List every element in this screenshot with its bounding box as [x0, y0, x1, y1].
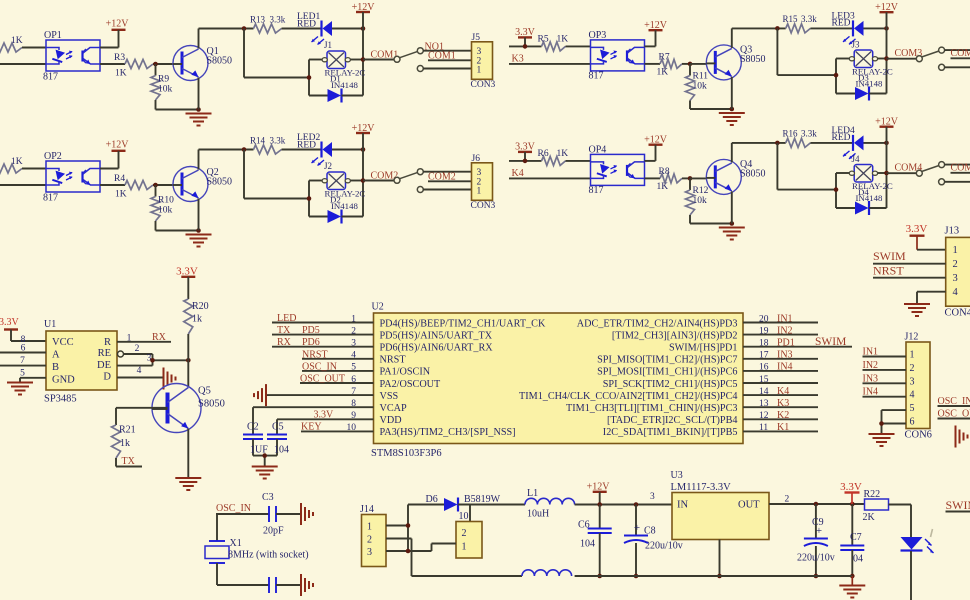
net label COM2 left ch2 — [363, 171, 398, 182]
svg-text:SWIM: SWIM — [815, 336, 846, 348]
svg-text:R3: R3 — [114, 53, 125, 63]
ground at Q1 — [186, 114, 212, 126]
wire C4 to ground bars — [276, 584, 300, 586]
svg-text:PD5: PD5 — [302, 325, 320, 336]
net label K1 / U2 pin 11 — [777, 422, 789, 433]
svg-text:220u/10v: 220u/10v — [797, 553, 835, 564]
power 3.3V at U3 output — [840, 481, 862, 504]
svg-text:CON3: CON3 — [471, 80, 496, 90]
svg-text:C5: C5 — [272, 422, 284, 433]
pin 6 text U2 — [351, 375, 441, 390]
svg-text:NRST: NRST — [302, 349, 328, 360]
wire U2 pin 11 — [743, 430, 818, 432]
svg-text:1K: 1K — [657, 68, 669, 78]
svg-text:TIM1_CH4/CLK_CCO/AIN2[TIM1_CH2: TIM1_CH4/CLK_CCO/AIN2[TIM1_CH2]/(HS)PC4 — [519, 391, 737, 402]
wire base Q4 — [690, 177, 706, 179]
pin 1 label J13 — [953, 245, 958, 256]
node relay loop ch2 — [307, 196, 312, 201]
svg-text:LED: LED — [277, 313, 296, 324]
svg-text:2K: 2K — [863, 512, 876, 523]
switch contacts relay output ch2 — [394, 169, 423, 193]
ground (bars) at C3 — [301, 503, 313, 525]
wire U2 pin 16 — [743, 370, 818, 372]
resistor 1K input ch1 — [0, 36, 46, 52]
net label SWIM / U2 pin18 — [815, 336, 846, 348]
power +12V at relay J1 — [352, 2, 376, 96]
svg-text:R20: R20 — [192, 301, 209, 312]
wire R14-LED2 — [282, 149, 322, 151]
net label COM4 left ch4 — [887, 162, 923, 173]
resistor R8 1K — [645, 167, 691, 192]
svg-text:TX: TX — [122, 456, 136, 467]
svg-text:3: 3 — [910, 376, 915, 387]
node 3.3V tap K3 — [523, 44, 528, 49]
wire crystal to C4 — [217, 563, 269, 585]
wire C2-C5 ground join — [253, 456, 277, 466]
wire collector Q1 — [198, 29, 200, 49]
svg-text:R10: R10 — [158, 196, 174, 206]
net label IN1 at J12 pin1 — [863, 347, 907, 358]
transistor Q5 S8050 — [152, 384, 225, 433]
power +12V at OP3 — [644, 20, 668, 46]
net label RX / U1 pin1 — [117, 332, 171, 344]
svg-text:IN4: IN4 — [777, 362, 793, 373]
pin 1 label J12 — [910, 350, 915, 361]
wire L1 to U3 IN — [575, 504, 672, 506]
svg-text:20pF: 20pF — [263, 526, 284, 537]
resistor R7 1K — [645, 53, 691, 78]
net label IN3 at J12 pin3 — [863, 373, 907, 384]
node J14 pin3 junction — [406, 549, 411, 554]
pin 3 label J13 — [953, 273, 958, 284]
svg-text:B: B — [52, 362, 59, 373]
svg-text:B5819W: B5819W — [464, 494, 501, 505]
svg-text:R12: R12 — [693, 186, 709, 196]
node base junction ch4 — [688, 176, 693, 181]
svg-text:SWIM/[HS]PD1: SWIM/[HS]PD1 — [669, 343, 738, 354]
ground at Q5 — [175, 478, 201, 490]
svg-text:3: 3 — [650, 492, 655, 502]
svg-text:RX: RX — [152, 332, 167, 343]
svg-text:1: 1 — [953, 245, 958, 256]
svg-text:2: 2 — [135, 344, 140, 354]
svg-text:J2: J2 — [324, 161, 332, 171]
wire NC contact ch4 — [944, 181, 970, 183]
net label NRST / U2 pin4 — [302, 349, 374, 360]
svg-text:PD6(HS)/AIN6/UART_RX: PD6(HS)/AIN6/UART_RX — [380, 343, 494, 354]
pin 20 text U2 — [577, 314, 769, 329]
wire input K1 — [0, 63, 46, 65]
optocoupler OP2 — [43, 151, 100, 204]
node base junction ch3 — [688, 62, 693, 67]
svg-text:1: 1 — [477, 187, 482, 197]
svg-text:1K: 1K — [115, 190, 127, 200]
svg-text:3: 3 — [367, 547, 372, 558]
U1 pin3 DE — [117, 354, 153, 366]
node rail-relay tap ch1 — [242, 26, 247, 31]
wire NC contact ch1 — [423, 68, 472, 70]
svg-text:OSC_IN: OSC_IN — [216, 503, 251, 514]
svg-text:IN1: IN1 — [777, 313, 793, 324]
svg-text:K4: K4 — [777, 386, 789, 397]
power 3.3V at R20 — [176, 266, 198, 300]
diode D1 IN4148 — [309, 89, 363, 103]
net label COM4 right ch4 — [951, 163, 970, 174]
node C8 top — [634, 502, 639, 507]
svg-text:C2: C2 — [247, 422, 259, 433]
pin 6 label U1 — [21, 344, 26, 354]
svg-text:L1: L1 — [527, 488, 538, 499]
svg-text:VCAP: VCAP — [380, 403, 408, 414]
optocoupler OP3 — [589, 30, 645, 82]
svg-text:4: 4 — [910, 390, 915, 401]
pin 11 text U2 — [603, 423, 769, 438]
resistor R22 2K — [863, 489, 912, 537]
node relay pin ch4 — [884, 171, 889, 176]
capacitor C8 220u/10v — [624, 505, 683, 577]
power 3.3V at J13 — [906, 223, 946, 250]
power +12V at relay J4 — [875, 117, 899, 209]
svg-text:J1: J1 — [324, 40, 332, 50]
svg-text:RE: RE — [98, 348, 111, 359]
net label IN2 / U2 pin 19 — [777, 325, 793, 336]
svg-text:3.3V: 3.3V — [314, 409, 335, 420]
net label SWIM bottom right — [946, 498, 970, 512]
wire bottom power rail — [412, 575, 853, 577]
wire rail Q1-R13 — [199, 28, 254, 30]
svg-text:NRST: NRST — [873, 264, 904, 278]
wire collector Q3 — [731, 28, 733, 48]
svg-text:IN4148: IN4148 — [331, 201, 358, 211]
svg-text:OP3: OP3 — [589, 30, 607, 41]
net label K3 — [509, 54, 591, 65]
node C9 top — [814, 502, 819, 507]
optocoupler OP1 — [43, 30, 100, 83]
pin 3 label J12 — [910, 376, 915, 387]
wire J10 pin1 to J14 pin3 — [432, 544, 457, 552]
svg-text:5: 5 — [910, 403, 915, 414]
svg-text:C6: C6 — [578, 520, 590, 531]
svg-text:R7: R7 — [659, 53, 670, 63]
node 3.3V tap K4 — [523, 159, 528, 164]
svg-text:SWIM: SWIM — [873, 249, 906, 263]
svg-text:J12: J12 — [905, 332, 919, 343]
power +12V at relay J2 — [352, 123, 376, 217]
connector J6 CON3 — [471, 154, 496, 211]
svg-text:3: 3 — [147, 354, 152, 364]
resistor R14 3.3k — [250, 136, 286, 155]
pin 10 text U2 — [347, 423, 516, 438]
svg-text:1k: 1k — [192, 314, 202, 325]
svg-text:+12V: +12V — [106, 140, 130, 151]
pin 5 label J12 — [910, 403, 915, 414]
svg-text:X1: X1 — [230, 538, 242, 549]
optocoupler OP4 — [589, 145, 645, 197]
capacitor C5 104 — [267, 419, 289, 455]
pin 4 label J13 — [953, 287, 959, 298]
svg-text:2: 2 — [367, 535, 372, 546]
svg-text:10k: 10k — [158, 206, 173, 216]
pin 16 text U2 — [597, 363, 769, 378]
wire rail Q3-R15 — [732, 27, 786, 29]
node rail-relay tap ch4 — [775, 141, 780, 146]
svg-text:3.3k: 3.3k — [270, 15, 286, 25]
svg-text:2: 2 — [462, 528, 467, 539]
pin 6 label J12 — [910, 417, 915, 428]
svg-text:PD1: PD1 — [777, 338, 795, 349]
wire emitter Q2 — [198, 199, 200, 231]
ground at Q3 — [719, 113, 745, 125]
relay J3 RELAY-2C — [849, 40, 893, 89]
relay J2 RELAY-2C — [322, 161, 365, 211]
pin 3 text U2 — [351, 339, 493, 354]
ground at C2/C5 — [252, 467, 278, 479]
wire U2 pin 19 — [743, 334, 818, 336]
svg-text:J3: J3 — [852, 40, 861, 50]
node relay loop ch1 — [307, 75, 312, 80]
svg-text:1K: 1K — [557, 149, 569, 159]
wire U2 pin 14 — [743, 394, 818, 396]
svg-text:817: 817 — [589, 71, 604, 82]
svg-text:LM1117-3.3V: LM1117-3.3V — [671, 482, 732, 493]
pin 2 label J13 — [953, 259, 958, 270]
svg-text:K2: K2 — [777, 410, 789, 421]
svg-text:A: A — [52, 350, 60, 361]
svg-text:R8: R8 — [659, 167, 670, 177]
node rail-+12V ch1 — [361, 26, 366, 31]
svg-text:C8: C8 — [644, 526, 656, 537]
wire emitter Q1 — [198, 78, 200, 110]
wire R13-LED1 — [282, 28, 322, 30]
net label K2 / U2 pin 12 — [777, 410, 789, 421]
net label COM3 right ch3 — [951, 48, 970, 59]
ground (bars) at U1 pin D — [164, 368, 176, 390]
wire R20 node to Q5 collector — [187, 360, 189, 387]
wire rail Q2-R14 — [199, 149, 254, 151]
svg-text:817: 817 — [589, 185, 604, 196]
node J14 pin1 junction — [406, 523, 411, 528]
net label IN4 / U2 pin 16 — [777, 362, 793, 373]
svg-text:OUT: OUT — [738, 500, 760, 511]
ground (bars) at U2 VSS — [254, 384, 266, 406]
svg-text:1: 1 — [910, 350, 915, 361]
wire U1 pin6 A — [0, 352, 46, 354]
wire collector Q2 — [198, 150, 200, 170]
pin 19 text U2 — [612, 326, 769, 341]
pin 5 text U2 — [351, 363, 430, 378]
capacitor C2 1UF — [243, 407, 268, 455]
svg-text:R21: R21 — [119, 425, 136, 436]
wire J14 pin1 — [386, 525, 408, 527]
diode D3 IN4148 — [836, 87, 887, 101]
net label LED / U2 pin1 — [272, 313, 374, 324]
pin 3 label U3 — [650, 492, 655, 502]
resistor R16 3.3k — [783, 129, 818, 148]
net label OSC_IN at crystal — [216, 503, 269, 514]
svg-text:R9: R9 — [158, 75, 169, 85]
svg-text:R6: R6 — [538, 149, 549, 159]
svg-text:220u/10v: 220u/10v — [645, 541, 683, 552]
node C6 bottom — [597, 574, 602, 579]
svg-text:04: 04 — [853, 554, 863, 565]
wire D6 anode riser — [408, 505, 444, 552]
resistor 1K input ch2 — [0, 157, 46, 173]
svg-text:J13: J13 — [945, 226, 960, 237]
svg-text:3.3V: 3.3V — [906, 223, 928, 235]
wire NC contact ch3 — [944, 66, 970, 68]
svg-text:PA1/OSCIN: PA1/OSCIN — [380, 367, 431, 378]
net label TX at R21 — [116, 456, 142, 467]
svg-text:1K: 1K — [115, 69, 127, 79]
inductor L1 10uH — [525, 488, 575, 520]
svg-text:U2: U2 — [372, 302, 384, 313]
capacitor C9 220u/10v — [797, 504, 835, 576]
net label OSC_IN right — [938, 396, 970, 407]
svg-text:3.3V: 3.3V — [0, 317, 20, 328]
net label OSC_IN / U2 pin5 — [302, 361, 374, 372]
svg-text:+: + — [634, 522, 640, 534]
wire NO contact ch3 — [944, 49, 970, 51]
svg-text:OP2: OP2 — [44, 151, 62, 162]
net label COM1 right ch1 — [428, 51, 472, 62]
svg-text:OP1: OP1 — [44, 30, 62, 41]
node R20 bottom — [186, 358, 191, 363]
wire NO contact ch4 — [944, 164, 970, 166]
node relay loop ch4 — [834, 187, 839, 192]
power +12V at OP1 — [100, 19, 129, 48]
pin 7 label U1 — [20, 356, 25, 366]
wire emitter Q3 — [731, 77, 733, 109]
svg-text:1k: 1k — [120, 438, 130, 449]
pin 12 text U2 — [607, 411, 769, 426]
svg-text:10k: 10k — [693, 196, 708, 206]
svg-text:OP4: OP4 — [589, 145, 607, 156]
connector J12 CON6 — [905, 332, 932, 441]
LED LED2 RED — [297, 133, 332, 166]
ground at Q2 — [186, 235, 212, 247]
net label RX PD6 / U2 pin3 — [272, 337, 374, 348]
svg-text:6: 6 — [910, 417, 915, 428]
svg-text:K3: K3 — [512, 54, 524, 65]
svg-text:SP3485: SP3485 — [44, 394, 77, 405]
svg-text:SPI_MISO[TIM1_CH2]/(HS)PC7: SPI_MISO[TIM1_CH2]/(HS)PC7 — [597, 355, 737, 366]
resistor R6 1K — [509, 149, 591, 165]
ground at J13 — [904, 304, 930, 316]
node rail-+12V ch3 — [884, 26, 889, 31]
svg-text:C9: C9 — [812, 517, 824, 528]
capacitor C4 — [269, 577, 276, 593]
connector J10 — [456, 522, 482, 559]
regulator U3 LM1117-3.3V — [671, 470, 770, 540]
svg-text:1K: 1K — [657, 182, 669, 192]
node base junction ch1 — [153, 62, 158, 67]
svg-text:TIM1_CH3[TLI][TIM1_CHIN]/(HS)P: TIM1_CH3[TLI][TIM1_CHIN]/(HS)PC3 — [566, 403, 737, 414]
power 3.3V at K4 input — [515, 142, 536, 161]
resistor R11 10k — [686, 64, 732, 109]
pin 17 text U2 — [597, 351, 769, 366]
node base junction ch2 — [153, 183, 158, 188]
net label SWIM at J13 pin2 — [873, 249, 946, 264]
wire LED3-+12V — [864, 27, 887, 29]
power +12V at L1 — [587, 482, 611, 505]
svg-text:PA2/OSCOUT: PA2/OSCOUT — [380, 379, 442, 390]
resistor R15 3.3k — [783, 14, 818, 33]
wire J13 pin4 to ground — [917, 292, 946, 303]
svg-text:R22: R22 — [864, 489, 881, 500]
svg-text:RX: RX — [277, 337, 292, 348]
wire R16-LED4 — [810, 142, 853, 144]
faint designator near power LED — [931, 529, 933, 537]
net label PD1 / U2 pin 18 — [777, 338, 795, 349]
crystal X1 8MHz — [205, 538, 309, 563]
node emitter-R11 ch3 — [730, 107, 735, 112]
svg-text:1K: 1K — [11, 36, 23, 46]
IC U1 SP3485 — [44, 319, 117, 405]
diode D2 IN4148 — [309, 210, 363, 224]
svg-text:VSS: VSS — [380, 391, 399, 402]
net label K4 / U2 pin 14 — [777, 386, 789, 397]
svg-text:R5: R5 — [538, 35, 549, 45]
net label NRST at J13 pin3 — [873, 264, 946, 278]
svg-text:7: 7 — [20, 356, 25, 366]
net label K3 / U2 pin 13 — [777, 398, 789, 409]
svg-text:2: 2 — [910, 363, 915, 374]
capacitor C6 104 — [578, 505, 612, 577]
wire J12 pin5 to ground — [882, 410, 907, 433]
svg-text:NRST: NRST — [380, 355, 407, 366]
svg-text:S8050: S8050 — [207, 177, 233, 188]
node RE-DE — [150, 358, 155, 363]
svg-text:IN4148: IN4148 — [331, 80, 358, 90]
node rail-+12V ch2 — [361, 147, 366, 152]
node relay loop ch3 — [834, 73, 839, 78]
svg-text:DE: DE — [97, 360, 111, 371]
wire U3 OUT to R22 — [769, 503, 865, 505]
wire R15-LED3 — [810, 27, 853, 29]
wire rail Q4-R16 — [732, 142, 786, 144]
wire relay drive loop ch4 — [777, 143, 849, 208]
pin 2 label J12 — [910, 363, 915, 374]
svg-text:CON6: CON6 — [905, 430, 932, 441]
pin 1 text U2 — [351, 314, 546, 329]
power 3.3V at K3 input — [515, 27, 536, 46]
wire NO contact ch1 — [423, 50, 472, 52]
switch contacts relay output ch1 — [394, 48, 423, 72]
svg-text:PA3(HS)/TIM2_CH3/[SPI_NSS]: PA3(HS)/TIM2_CH3/[SPI_NSS] — [380, 427, 516, 438]
svg-text:D6: D6 — [426, 494, 438, 505]
node relay pin ch2 — [361, 178, 366, 183]
LED LED3 RED — [832, 12, 864, 45]
ground at U1 pin5 — [7, 383, 33, 395]
svg-text:3.3V: 3.3V — [840, 481, 862, 493]
resistor R10 10k — [151, 185, 199, 231]
svg-text:C3: C3 — [262, 492, 274, 503]
svg-text:Q5: Q5 — [198, 386, 211, 397]
net label K4 — [509, 168, 591, 179]
wire U2 pin 17 — [743, 358, 818, 360]
svg-text:TX: TX — [277, 325, 291, 336]
net label IN2 at J12 pin2 — [863, 360, 907, 371]
svg-text:IN3: IN3 — [777, 350, 793, 361]
svg-text:2: 2 — [953, 259, 958, 270]
resistor R3 1K — [100, 53, 173, 79]
svg-text:CON3: CON3 — [471, 201, 496, 211]
wire relay pin to +12V ch3 — [878, 58, 887, 60]
svg-text:10k: 10k — [693, 82, 708, 92]
svg-text:R16: R16 — [783, 129, 799, 139]
LED LED1 RED — [297, 12, 332, 45]
connector J5 CON3 — [471, 33, 496, 90]
